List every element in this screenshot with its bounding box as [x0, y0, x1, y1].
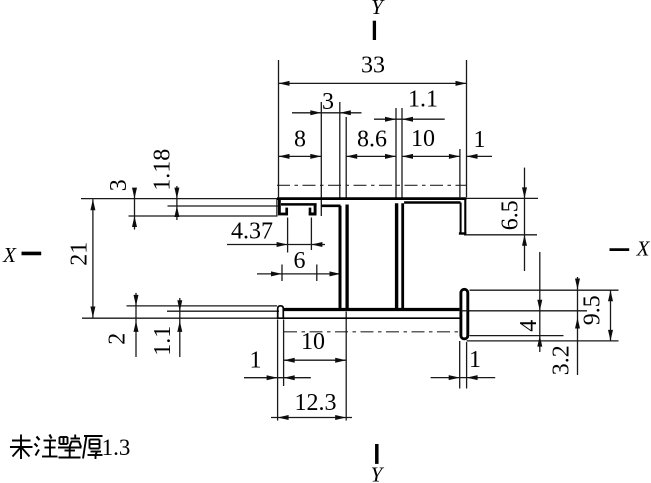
svg-text:6.5: 6.5	[498, 200, 524, 230]
svg-text:6: 6	[294, 248, 306, 274]
svg-text:X: X	[2, 243, 17, 267]
svg-text:1.1: 1.1	[408, 86, 438, 112]
svg-text:1: 1	[250, 347, 262, 373]
svg-text:1.1: 1.1	[150, 326, 176, 356]
svg-text:3: 3	[322, 89, 334, 115]
svg-text:4: 4	[516, 320, 542, 332]
svg-text:4.37: 4.37	[231, 218, 273, 244]
svg-text:21: 21	[67, 242, 93, 266]
svg-text:1.3: 1.3	[102, 435, 131, 460]
svg-text:9.5: 9.5	[580, 295, 606, 325]
svg-text:10: 10	[411, 126, 435, 152]
svg-text:3: 3	[106, 179, 132, 191]
svg-text:1.18: 1.18	[150, 149, 176, 191]
svg-text:1: 1	[474, 127, 486, 153]
svg-text:3.2: 3.2	[549, 345, 575, 375]
svg-text:33: 33	[361, 52, 385, 78]
svg-text:12.3: 12.3	[295, 390, 337, 416]
svg-text:8: 8	[294, 126, 306, 152]
svg-text:10: 10	[301, 329, 325, 355]
svg-text:2: 2	[105, 333, 131, 345]
svg-text:1: 1	[469, 347, 481, 373]
svg-text:X: X	[636, 237, 651, 261]
svg-text:8.6: 8.6	[357, 126, 387, 152]
